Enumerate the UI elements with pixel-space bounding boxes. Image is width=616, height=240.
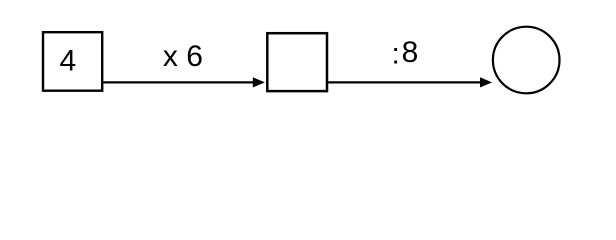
middle box (empty square) xyxy=(267,33,327,91)
svg-text:8: 8 xyxy=(402,36,419,69)
svg-text::: : xyxy=(392,37,400,70)
svg-text:x 6: x 6 xyxy=(163,40,203,73)
input box (square) with value 4 xyxy=(43,32,102,90)
wire: arrow shaft from input box to middle box xyxy=(102,81,255,83)
wire: arrow shaft from middle box to result circle xyxy=(327,81,482,83)
operation label : 8 xyxy=(392,36,419,70)
svg-text:4: 4 xyxy=(59,45,76,78)
result circle (empty) xyxy=(493,27,560,94)
arrowhead into result circle xyxy=(480,77,492,87)
arrowhead into middle box xyxy=(253,77,265,87)
